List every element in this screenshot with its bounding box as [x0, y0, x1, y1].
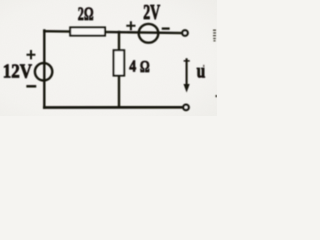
- scan artifact: tick above u label: [203, 65, 205, 67]
- voltage arrow u (tick, shaft, head): [184, 60, 189, 62]
- wire: left vertical branch through 12V source: [43, 31, 45, 108]
- polarity + of 12V source: [28, 51, 35, 58]
- polarity - of 12V source: [28, 85, 35, 88]
- wire: top horizontal from left corner to right terminal: [44, 31, 182, 33]
- wire: bottom horizontal to right terminal: [44, 106, 183, 109]
- svg-text:Ω: Ω: [140, 58, 150, 76]
- scan artifact: right edge dashes: [213, 30, 216, 31]
- scan artifact: bottom right speck: [215, 95, 217, 97]
- terminal node: top right open circle: [182, 30, 187, 35]
- svg-text:u: u: [197, 59, 206, 82]
- terminal node: bottom right open circle: [183, 105, 188, 110]
- wire: middle vertical branch with 4-ohm resistor: [118, 32, 120, 107]
- polarity + of 2V source: [127, 22, 134, 29]
- polarity - of 2V source: [163, 27, 169, 29]
- svg-text:12V: 12V: [3, 60, 33, 81]
- resistor R2 4-ohm (box): [114, 50, 125, 75]
- svg-text:2Ω: 2Ω: [78, 5, 94, 25]
- voltage source V2 2V (circle): [139, 24, 159, 43]
- svg-text:4: 4: [129, 57, 136, 76]
- voltage source V1 12V (circle): [35, 63, 52, 80]
- resistor R1 2-ohm (box): [70, 27, 105, 35]
- svg-text:2V: 2V: [143, 0, 160, 24]
